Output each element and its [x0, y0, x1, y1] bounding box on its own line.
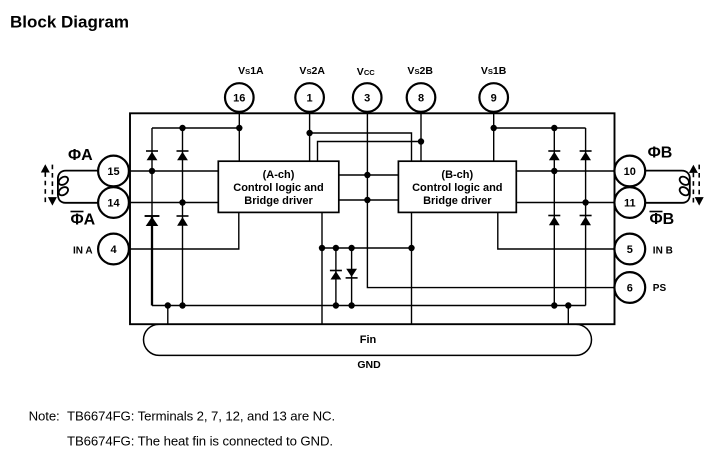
junction pin15 line / column L1: [149, 168, 155, 174]
inductor motor winding B: [645, 171, 690, 203]
wire B-ch ground stem: [411, 212, 413, 324]
junction right top rail / column R1: [551, 125, 557, 131]
svg-text:VS2B: VS2B: [407, 65, 433, 77]
current arrow B down: [695, 165, 704, 206]
terminal 5 (IN B): [614, 234, 672, 265]
label phi-A-bar: [71, 212, 96, 229]
svg-text:4: 4: [110, 244, 117, 256]
heat fin (stadium): [144, 324, 592, 355]
note line 2: [67, 434, 333, 449]
wire inter-block lower: [339, 199, 399, 201]
wire Vcc stem to pin 6: [367, 112, 614, 288]
svg-text:Note:: Note:: [29, 408, 60, 423]
terminal 10 (phase B out): [614, 156, 645, 187]
terminal 4 (IN A): [73, 234, 129, 265]
wire pin8 stem: [420, 112, 422, 161]
diode D4 (lower left, column L2): [177, 216, 189, 226]
svg-text:Block Diagram: Block Diagram: [10, 13, 129, 32]
wire pin15 line: [129, 170, 218, 172]
title Block Diagram: [10, 13, 129, 32]
svg-text:TB6674FG: The heat fin is conn: TB6674FG: The heat fin is connected to G…: [67, 434, 333, 449]
wire diode column C1: [335, 248, 337, 306]
svg-text:ΦA: ΦA: [71, 212, 96, 229]
op block U-B (B-ch control logic and bridge driver): [398, 161, 516, 212]
svg-text:Bridge driver: Bridge driver: [244, 195, 313, 207]
wire pin4 to A-ch: [129, 212, 239, 249]
junction bottom rail / column L2: [179, 302, 185, 308]
svg-text:1: 1: [307, 93, 313, 105]
svg-text:VS1B: VS1B: [481, 65, 507, 77]
wire pin9 stem: [493, 112, 495, 161]
terminal 9 (Vs1B): [479, 65, 508, 112]
svg-text:ΦA: ΦA: [68, 147, 93, 164]
svg-text:6: 6: [627, 283, 633, 295]
label phi-B-bar: [650, 211, 675, 228]
svg-text:IN B: IN B: [653, 246, 673, 257]
op block U-A (A-ch control logic and bridge driver): [218, 161, 338, 212]
wire pin1 to B-ch: [310, 133, 412, 161]
wire A-ch to pin8 stem: [318, 142, 422, 162]
diode D9 (lower right, column R1): [548, 216, 560, 226]
wire pin16 stem: [238, 112, 240, 161]
svg-text:Fin: Fin: [360, 334, 377, 346]
wire pin14 line: [129, 202, 218, 204]
wire A-ch ground stem: [321, 212, 323, 324]
terminal 3 (Vcc): [353, 66, 382, 112]
svg-text:14: 14: [107, 198, 120, 210]
svg-text:5: 5: [627, 244, 633, 256]
svg-text:3: 3: [364, 93, 370, 105]
svg-text:(A-ch): (A-ch): [263, 169, 295, 181]
svg-text:TB6674FG: Terminals 2, 7, 12,: TB6674FG: Terminals 2, 7, 12, and 13 are…: [67, 408, 335, 423]
note line 1: [29, 408, 335, 423]
junction pin16 stem / left top rail: [236, 125, 242, 131]
current arrow A down: [48, 165, 57, 206]
wire pin10 line: [516, 170, 614, 172]
terminal 11 (phase B inverted out): [614, 187, 645, 218]
inductor motor winding A: [57, 171, 98, 203]
svg-text:IN A: IN A: [73, 245, 93, 256]
wire fin stem left: [167, 306, 169, 325]
junction pin11 line / column R2: [582, 199, 588, 205]
terminal 6 (PS): [614, 272, 666, 303]
junction center rail / column C1: [333, 245, 339, 251]
wire pin5 to B-ch: [498, 212, 615, 249]
current arrow A up: [41, 164, 50, 205]
IC package outline: [130, 113, 615, 324]
junction pin9 stem / right top rail: [491, 125, 497, 131]
svg-text:Control logic and: Control logic and: [412, 182, 502, 194]
svg-text:(B-ch): (B-ch): [441, 169, 473, 181]
junction bottom rail / column R1: [551, 302, 557, 308]
svg-text:ΦB: ΦB: [648, 145, 673, 162]
wire diode column R2: [585, 128, 587, 306]
wire diode column L2: [182, 128, 184, 306]
current arrow B up: [689, 165, 698, 205]
diode D2 (upper left, column L2 to Vs1A rail): [177, 151, 189, 160]
wire inter-block upper: [339, 174, 399, 176]
diode D8 (upper right, column R2 to Vs1B rail): [580, 151, 592, 160]
wire bottom rail: [152, 305, 586, 307]
GND label: [357, 359, 381, 371]
wire pin1 stem: [309, 112, 311, 161]
svg-text:Control logic and: Control logic and: [233, 182, 323, 194]
wire center rail: [322, 247, 412, 249]
junction center rail / column C2: [348, 245, 354, 251]
svg-text:VCC: VCC: [357, 66, 375, 78]
junction Vcc stem / inter-block wire upper: [364, 172, 370, 178]
wire pin11 line: [516, 202, 614, 204]
wire fin stem right: [567, 306, 569, 325]
terminal 16 (Vs1A): [225, 65, 264, 112]
wire diode column R1: [553, 128, 555, 306]
wire right top rail: [494, 127, 586, 129]
terminal 15 (phase A out): [98, 156, 129, 187]
wire left top rail: [152, 127, 239, 129]
diode D3 (lower left, bold, column L1): [145, 216, 160, 226]
wire diode column C2: [351, 248, 353, 306]
junction pin8 stem / crossover wire: [418, 138, 424, 144]
terminal 14 (phase A inverted out): [98, 187, 129, 218]
svg-text:VS1A: VS1A: [238, 65, 264, 77]
junction bottom rail / fin stem right: [565, 302, 571, 308]
svg-text:11: 11: [624, 198, 636, 210]
junction left top rail / column L2: [179, 125, 185, 131]
junction pin14 line / column L2: [179, 199, 185, 205]
terminal 1 (Vs2A): [295, 65, 325, 112]
svg-text:8: 8: [418, 93, 424, 105]
svg-text:15: 15: [107, 166, 119, 178]
wire diode column L1: [151, 128, 153, 306]
terminal 8 (Vs2B): [407, 65, 436, 112]
diode D7 (upper right, column R1 to Vs1B rail): [548, 151, 560, 160]
diode D1 (upper left, column L1 to Vs1A rail): [146, 151, 158, 160]
svg-text:VS2A: VS2A: [299, 65, 325, 77]
svg-text:GND: GND: [357, 359, 381, 371]
diode D5 (center, anode down): [330, 271, 342, 280]
label phi-B: [648, 145, 673, 162]
label phi-A: [68, 147, 93, 164]
svg-text:10: 10: [624, 166, 636, 178]
svg-text:9: 9: [491, 93, 497, 105]
junction center rail / A-ch ground stem: [319, 245, 325, 251]
svg-text:Bridge driver: Bridge driver: [423, 195, 492, 207]
svg-text:ΦB: ΦB: [650, 211, 675, 228]
junction bottom rail / column C2: [348, 302, 354, 308]
junction bottom rail / fin stem left: [165, 302, 171, 308]
svg-text:16: 16: [233, 93, 245, 105]
diode D10 (lower right, column R2): [580, 216, 592, 226]
junction pin10 line / column R1: [551, 168, 557, 174]
junction bottom rail / column C1: [333, 302, 339, 308]
diode D6 (center, cathode down): [346, 269, 358, 278]
svg-text:PS: PS: [653, 283, 667, 294]
junction center rail / B-ch ground stem: [408, 245, 414, 251]
junction pin1 stem / crossover wire: [306, 130, 312, 136]
junction Vcc stem / inter-block wire lower: [364, 197, 370, 203]
